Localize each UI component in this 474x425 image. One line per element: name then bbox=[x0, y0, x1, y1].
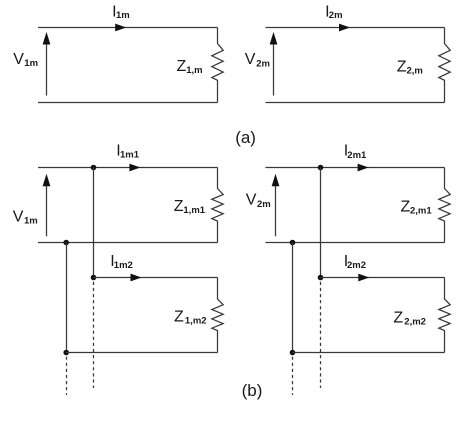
svg-text:V: V bbox=[13, 209, 24, 226]
label Z2,m1 bbox=[401, 199, 433, 217]
voltage arrow V1m (circuit b-left) bbox=[43, 174, 51, 237]
wire middle conductor (loop1 bottom), circuit b-right bbox=[266, 242, 445, 244]
label V1m (circuit a-left) bbox=[13, 51, 38, 69]
wire vertical from top junction down to I2m2 node bbox=[320, 168, 322, 278]
node dot top junction b-right bbox=[318, 165, 324, 171]
svg-text:2,m2: 2,m2 bbox=[404, 316, 426, 327]
wire top conductor, circuit b-right bbox=[266, 167, 445, 169]
node dot on middle conductor b-right bbox=[290, 240, 296, 246]
svg-text:1,m: 1,m bbox=[186, 65, 202, 76]
voltage arrow V2m (circuit b-right) bbox=[272, 174, 280, 237]
wire bottom conductor (loop2), circuit b-right bbox=[293, 352, 445, 354]
label I2m1 bbox=[344, 143, 367, 161]
svg-text:Z: Z bbox=[174, 308, 184, 325]
label I1m bbox=[112, 4, 130, 22]
svg-text:(a): (a) bbox=[235, 128, 256, 147]
impedance Z2,m (right branch with resistor zigzag) bbox=[439, 28, 450, 103]
node dot bottom left return (b-right) bbox=[290, 350, 296, 356]
voltage arrow V1m (circuit a-left) bbox=[43, 32, 51, 96]
node dot on middle conductor b-left bbox=[63, 240, 69, 246]
wire bottom conductor, circuit a-right bbox=[266, 102, 445, 104]
dashed wire stub below bottom node (b-right) bbox=[292, 357, 294, 395]
current arrow I2m1 bbox=[358, 164, 369, 172]
label Z1,m bbox=[177, 58, 203, 76]
svg-text:2m: 2m bbox=[257, 199, 271, 210]
current arrow I2m2 bbox=[358, 274, 369, 282]
svg-text:1,m1: 1,m1 bbox=[183, 205, 205, 216]
dashed wire stub below I2m2 node (b-right) bbox=[320, 282, 322, 388]
svg-text:1m2: 1m2 bbox=[114, 260, 133, 271]
svg-text:2m1: 2m1 bbox=[347, 150, 367, 161]
svg-text:1,m2: 1,m2 bbox=[185, 315, 207, 326]
voltage arrow V2m (circuit a-right) bbox=[270, 32, 278, 96]
svg-text:(b): (b) bbox=[242, 381, 263, 400]
svg-text:Z: Z bbox=[393, 309, 403, 326]
wire vertical left return (b-left) bbox=[66, 243, 68, 353]
dashed wire stub below bottom node (b-left) bbox=[66, 357, 68, 395]
wire bottom conductor, circuit a-left bbox=[38, 102, 218, 104]
label I1m2 bbox=[110, 253, 133, 271]
svg-text:1m: 1m bbox=[24, 216, 38, 227]
wire bottom conductor (loop2), circuit b-left bbox=[66, 352, 218, 354]
label V2m (circuit a-right) bbox=[245, 51, 270, 69]
label V1m (circuit b-left) bbox=[13, 209, 38, 227]
wire I2m2 top conductor (loop2), circuit b-right bbox=[321, 277, 445, 279]
svg-text:V: V bbox=[13, 51, 24, 68]
wire vertical left return (b-right) bbox=[292, 243, 294, 353]
current arrow I1m1 bbox=[129, 164, 140, 172]
svg-text:Z: Z bbox=[397, 58, 407, 75]
node dot at I1m2 take-off b-left bbox=[91, 275, 97, 281]
label I1m1 bbox=[116, 143, 139, 161]
label Z1,m1 bbox=[174, 198, 206, 216]
label I2m2 bbox=[344, 253, 366, 271]
svg-text:V: V bbox=[246, 192, 257, 209]
current arrow I2m bbox=[339, 24, 350, 32]
wire top conductor, circuit a-left bbox=[38, 27, 218, 29]
label Z2,m bbox=[397, 58, 423, 76]
dashed wire stub below I1m2 node (b-left) bbox=[93, 282, 95, 388]
svg-text:2,m: 2,m bbox=[407, 65, 423, 76]
impedance Z1,m2 (right branch with resistor zigzag) bbox=[212, 278, 223, 353]
impedance Z1,m1 (right branch with resistor zigzag) bbox=[212, 168, 223, 243]
impedance Z1,m (right branch with resistor zigzag) bbox=[212, 28, 223, 103]
impedance Z2,m2 (right branch with resistor zigzag) bbox=[439, 278, 450, 353]
wire top conductor, circuit b-left bbox=[38, 167, 218, 169]
wire top conductor, circuit a-right bbox=[266, 27, 445, 29]
current arrow I1m2 bbox=[131, 274, 142, 282]
svg-text:2m: 2m bbox=[329, 10, 343, 21]
label V2m (circuit b-right) bbox=[246, 192, 271, 210]
svg-text:2m2: 2m2 bbox=[347, 260, 366, 271]
label Z1,m2 bbox=[174, 308, 207, 326]
svg-text:Z: Z bbox=[401, 199, 411, 216]
svg-text:1m: 1m bbox=[24, 58, 38, 69]
svg-text:2m: 2m bbox=[256, 58, 270, 69]
wire I1m2 top conductor (loop2), circuit b-left bbox=[94, 277, 218, 279]
wire vertical from top junction down to I1m2 node bbox=[93, 168, 95, 278]
svg-text:1m: 1m bbox=[116, 10, 130, 21]
node dot bottom left return (b-left) bbox=[63, 350, 69, 356]
label I2m bbox=[325, 4, 342, 22]
impedance Z2,m1 (right branch with resistor zigzag) bbox=[439, 168, 450, 243]
node dot top junction b-left bbox=[91, 165, 97, 171]
node dot at I2m2 take-off b-right bbox=[318, 275, 324, 281]
svg-text:V: V bbox=[245, 51, 256, 68]
current arrow I1m bbox=[115, 24, 126, 32]
svg-text:Z: Z bbox=[174, 198, 184, 215]
svg-text:1m1: 1m1 bbox=[120, 150, 140, 161]
svg-text:2,m1: 2,m1 bbox=[410, 206, 432, 217]
svg-text:Z: Z bbox=[177, 58, 187, 75]
wire middle conductor (loop1 bottom), circuit b-left bbox=[38, 242, 218, 244]
label Z2,m2 bbox=[393, 309, 426, 327]
